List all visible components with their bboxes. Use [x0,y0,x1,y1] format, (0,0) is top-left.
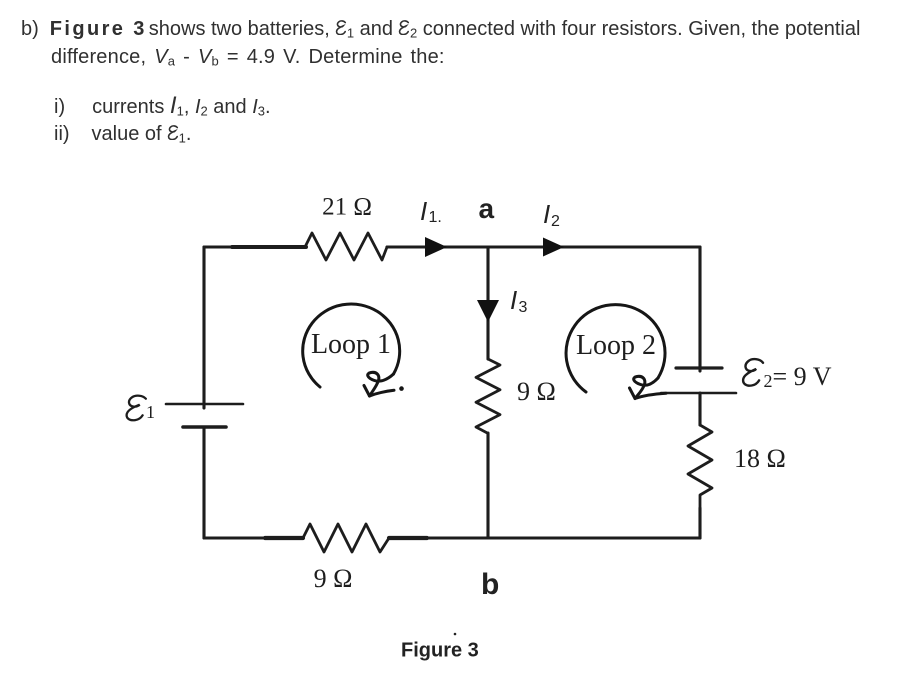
svg-text:1.: 1. [429,209,442,226]
svg-text:1: 1 [146,402,155,422]
svg-text:9 Ω: 9 Ω [314,564,353,593]
svg-text:I: I [510,285,517,315]
svg-text:I: I [420,196,427,226]
svg-text:I: I [543,199,550,229]
svg-text:= 9 V: = 9 V [773,362,832,391]
svg-text:9 Ω: 9 Ω [517,377,556,406]
svg-text:b: b [481,568,499,601]
svg-text:18 Ω: 18 Ω [734,444,786,473]
svg-text:a: a [479,193,495,224]
svg-text:Loop 1: Loop 1 [311,329,391,360]
svg-text:3: 3 [519,299,528,316]
svg-text:Loop 2: Loop 2 [576,330,656,361]
svg-text:Figure 3: Figure 3 [401,640,479,662]
svg-text:2: 2 [551,213,560,230]
svg-text:21 Ω: 21 Ω [322,194,372,221]
svg-text:2: 2 [764,371,773,391]
